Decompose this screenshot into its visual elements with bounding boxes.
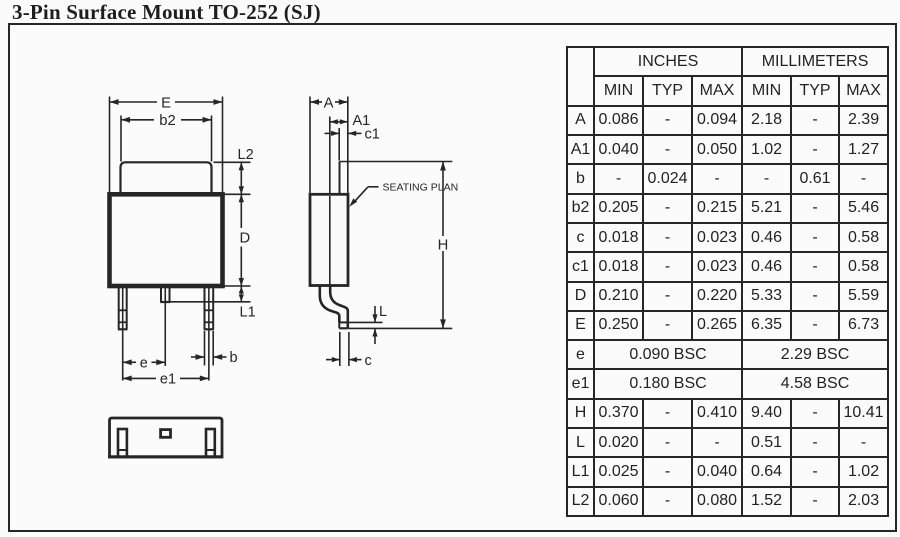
- svg-text:L: L: [379, 304, 387, 320]
- svg-text:SEATING PLAN: SEATING PLAN: [383, 182, 459, 194]
- svg-text:b: b: [230, 350, 238, 366]
- svg-text:c1: c1: [365, 127, 380, 143]
- svg-text:L2: L2: [238, 147, 254, 163]
- svg-text:e1: e1: [160, 372, 176, 388]
- svg-text:D: D: [239, 230, 250, 246]
- svg-text:c: c: [365, 353, 372, 369]
- svg-text:E: E: [161, 96, 171, 112]
- svg-text:L1: L1: [240, 305, 256, 321]
- svg-text:e: e: [140, 355, 148, 371]
- svg-text:b2: b2: [159, 113, 175, 129]
- svg-text:A: A: [324, 96, 334, 112]
- svg-text:H: H: [438, 238, 449, 254]
